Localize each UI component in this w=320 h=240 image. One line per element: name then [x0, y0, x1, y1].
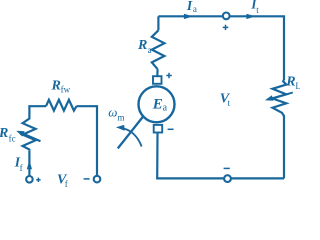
plus sign at top brush — [166, 73, 172, 78]
top wire from corner to right corner — [158, 16, 284, 80]
top terminal node circle — [223, 13, 230, 20]
plus sign at field left terminal — [36, 178, 40, 182]
shaft line — [118, 116, 144, 148]
current arrow It — [246, 14, 255, 19]
wire RL bottom to bottom right corner — [283, 117, 285, 178]
machine armature circle — [139, 86, 175, 122]
svg-text:R: R — [0, 126, 8, 141]
svg-text:R: R — [51, 78, 61, 93]
svg-text:L: L — [295, 81, 300, 91]
svg-text:m: m — [118, 113, 125, 123]
bottom terminal node circle — [224, 175, 231, 182]
svg-text:t: t — [256, 5, 259, 15]
svg-text:f: f — [20, 163, 23, 173]
wire: Rfc top to corner to Rfw — [29, 106, 46, 117]
rotation arrow arc (omega m) — [121, 128, 142, 147]
resistor RL (load zigzag) — [273, 80, 287, 117]
plus sign below top node — [223, 25, 229, 30]
wire Ra to top brush — [156, 69, 159, 76]
minus sign at field right terminal — [84, 178, 90, 180]
terminal + (field left) — [26, 176, 33, 183]
svg-text:f: f — [65, 179, 68, 187]
svg-text:I: I — [186, 0, 193, 13]
resistor Rfc (field rheostat zigzag) — [23, 117, 36, 151]
resistor Ra (zigzag) — [152, 30, 165, 69]
current arrow Ia — [184, 14, 193, 19]
svg-text:a: a — [163, 102, 168, 113]
svg-text:a: a — [148, 45, 152, 55]
wire bottom brush down and bottom wire to the right — [157, 133, 284, 179]
svg-text:a: a — [193, 4, 197, 14]
Rfc rheostat arrow — [22, 133, 41, 141]
svg-text:ω: ω — [108, 104, 117, 119]
svg-text:R: R — [285, 74, 295, 89]
svg-text:fc: fc — [9, 134, 16, 144]
svg-text:E: E — [152, 96, 163, 112]
svg-text:R: R — [137, 38, 147, 53]
field circuit left vertical wire — [28, 151, 30, 176]
top brush — [153, 76, 162, 84]
wire: Rfw to right corner down to terminal — [77, 106, 98, 176]
svg-text:t: t — [228, 98, 231, 108]
armature branch: corner to Ra — [157, 16, 159, 30]
resistor Rfw (field winding zigzag) — [46, 100, 77, 111]
minus sign at bottom brush — [168, 128, 174, 130]
bottom brush — [154, 125, 163, 133]
terminal - (field right) — [94, 176, 101, 183]
svg-text:fw: fw — [61, 85, 71, 95]
minus sign above bottom node — [224, 167, 230, 169]
RL variable arrow — [272, 93, 293, 99]
current arrow If on wire — [27, 160, 32, 169]
